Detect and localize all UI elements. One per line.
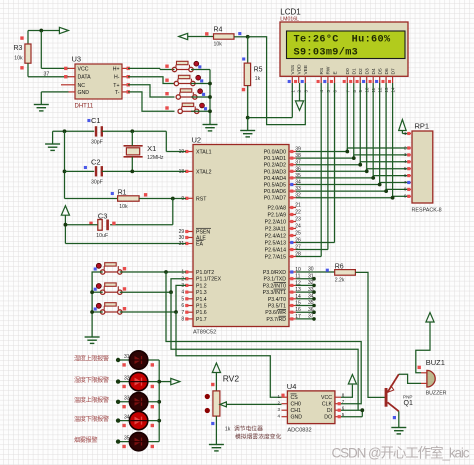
- U3 pin stub GND: [69, 91, 76, 93]
- svg-text:H-: H-: [114, 75, 120, 81]
- capacitor C1: [95, 126, 97, 136]
- junction P0.2/D2: [358, 163, 362, 167]
- svg-text:XTAL1: XTAL1: [196, 150, 212, 156]
- wire P0.1 to D1/RP1 pin 3: [296, 157, 354, 159]
- svg-text:32: 32: [308, 280, 314, 286]
- button K4 actuator dot: [200, 103, 205, 108]
- junction LED bus D3: [157, 400, 161, 404]
- svg-text:RV2: RV2: [223, 374, 240, 384]
- button K1: [172, 67, 176, 71]
- wire U3 T+ to button K3: [128, 85, 175, 97]
- svg-text:10k: 10k: [14, 56, 23, 62]
- junction P0.3/D3: [365, 169, 369, 173]
- button K6 probe marker: [94, 288, 97, 291]
- wire P0.3 to D3/RP1 pin 5: [296, 170, 367, 172]
- svg-text:37: 37: [44, 71, 50, 77]
- node B junction (R4/R5/VEE): [246, 35, 250, 39]
- wire R3 top to node: [28, 30, 41, 32]
- probe marker R6 left: [326, 269, 329, 272]
- transistor Q1 emitter (to buzzer): [388, 374, 399, 392]
- svg-text:模拟烟雾浓度变化: 模拟烟雾浓度变化: [235, 432, 282, 440]
- wire K7 to P1.2: [120, 285, 186, 312]
- wire R6 to Q1 base: [355, 272, 385, 397]
- svg-text:P2.5/A13: P2.5/A13: [265, 241, 286, 247]
- U4 right pin stubs and numbers: [335, 396, 341, 398]
- svg-text:P0.7/AD7: P0.7/AD7: [264, 196, 286, 202]
- svg-text:1k: 1k: [255, 76, 261, 82]
- probe marker C2: [84, 166, 87, 169]
- pin marker C3 right: [112, 222, 115, 225]
- pin markers U4 CLK DI DO: [338, 402, 341, 405]
- junction LED bus D2: [157, 380, 161, 384]
- button K5 actuator dot: [96, 263, 101, 268]
- svg-text:10k: 10k: [119, 204, 128, 210]
- button K7: [101, 310, 105, 314]
- wire P0.5 to D5/RP1 pin 7: [296, 184, 380, 186]
- junction P0.1/D1: [352, 156, 356, 160]
- junction K3 bus: [208, 95, 212, 99]
- svg-text:湿度下限报警: 湿度下限报警: [74, 376, 109, 384]
- wire U4 VCC to arrow: [341, 385, 352, 398]
- button K1 pin marker: [165, 65, 168, 68]
- svg-text:21: 21: [295, 203, 301, 209]
- wire R4 to node B: [234, 36, 248, 38]
- wire DI/DO tie: [341, 409, 362, 411]
- wire K4 to bus: [191, 110, 210, 112]
- svg-text:D5: D5: [378, 68, 384, 74]
- buzzer BUZ1 symbol: [427, 370, 435, 387]
- svg-text:E: E: [332, 71, 338, 74]
- svg-text:32: 32: [124, 375, 130, 381]
- svg-text:P0.6/AD6: P0.6/AD6: [264, 189, 286, 195]
- svg-text:CS: CS: [291, 395, 299, 401]
- wire VCC to EA pin 31: [65, 243, 186, 245]
- svg-text:CH0: CH0: [291, 402, 301, 408]
- wire node C to ground: [247, 118, 249, 131]
- ground (bottom buttons): [85, 336, 100, 338]
- ground (Q1): [391, 427, 406, 429]
- svg-text:34: 34: [308, 294, 314, 300]
- svg-text:C3: C3: [98, 211, 108, 220]
- button K7 pin marker: [123, 307, 126, 310]
- svg-text:温度上限报警: 温度上限报警: [74, 396, 109, 404]
- button K5 probe marker: [94, 267, 97, 270]
- svg-text:D0: D0: [345, 68, 351, 74]
- wire P3.6 net 36: [296, 311, 314, 313]
- button K1 probe marker: [198, 65, 201, 68]
- svg-text:10k: 10k: [214, 41, 223, 47]
- svg-text:D6: D6: [384, 68, 390, 74]
- junction C3/VCC: [64, 223, 68, 227]
- pin marker R3 bottom: [20, 66, 23, 69]
- junction P0.7/D7: [391, 196, 395, 200]
- button K4 probe marker: [204, 107, 207, 110]
- svg-text:4: 4: [181, 290, 184, 296]
- power terminal (VCC) arrow right, R3 node: [41, 30, 59, 32]
- LED D2 pin markers: [122, 385, 125, 388]
- button K6 pin marker: [123, 287, 126, 290]
- svg-text:37: 37: [308, 314, 314, 320]
- junction K7 riser: [174, 310, 178, 314]
- svg-text:RESPACK-8: RESPACK-8: [412, 208, 442, 214]
- wire P0.7 to D7/RP1 pin 9: [296, 197, 393, 199]
- LED D2: [129, 372, 147, 390]
- wire bus corner to R1: [65, 198, 118, 200]
- button K3: [176, 95, 180, 99]
- wire LCD RW to P2.6: [327, 83, 329, 250]
- svg-text:ADC0832: ADC0832: [287, 428, 311, 434]
- U2 right pin stubs and numbers: [289, 151, 296, 153]
- ground (C1/C2): [45, 143, 60, 145]
- wire P3.3 net 33: [296, 291, 314, 293]
- LED D1 wire: [118, 359, 159, 361]
- U3 pin stubs right H+ H- T+ T-: [122, 67, 128, 69]
- junction P0.6/D6: [384, 189, 388, 193]
- svg-text:P3.3/INT1: P3.3/INT1: [263, 290, 286, 296]
- svg-text:P2.1/A9: P2.1/A9: [268, 213, 287, 219]
- svg-text:烟雾报警: 烟雾报警: [74, 436, 98, 444]
- power terminal arrow up (BUZ1): [426, 313, 434, 323]
- svg-text:P1.0/T2: P1.0/T2: [196, 270, 214, 276]
- junction X1 bottom: [130, 170, 134, 174]
- svg-text:T+: T+: [113, 83, 119, 89]
- svg-text:P1.3: P1.3: [196, 290, 207, 296]
- power terminal arrow up (U4 VCC): [348, 375, 356, 385]
- svg-text:D4: D4: [371, 68, 377, 74]
- wire P1.0 wrap to ADC CLK: [166, 272, 361, 404]
- svg-text:P2.7/A15: P2.7/A15: [265, 255, 286, 261]
- svg-text:34: 34: [124, 414, 130, 420]
- svg-text:VEE: VEE: [303, 65, 309, 75]
- resistor R1: [118, 196, 140, 201]
- resistor pack RP1 body: [412, 131, 433, 203]
- svg-text:1k: 1k: [225, 426, 231, 432]
- resistor R5: [244, 63, 250, 86]
- svg-text:P3.2/INT0: P3.2/INT0: [263, 283, 286, 289]
- junction LED bus D4: [157, 419, 161, 423]
- svg-text:RST: RST: [196, 196, 207, 202]
- svg-text:D2: D2: [358, 68, 364, 74]
- button K7 probe marker: [94, 307, 97, 310]
- svg-text:PNP: PNP: [403, 394, 412, 399]
- svg-text:DO: DO: [324, 415, 332, 421]
- pin marker R3 top: [20, 36, 23, 39]
- pin marker C3 left: [89, 222, 92, 225]
- svg-text:P3.5/T1: P3.5/T1: [268, 304, 286, 310]
- svg-text:6: 6: [181, 303, 184, 309]
- button K3 actuator dot: [198, 89, 203, 94]
- svg-text:CH1: CH1: [291, 408, 301, 414]
- svg-text:XTAL2: XTAL2: [196, 169, 212, 175]
- svg-text:X1: X1: [147, 144, 156, 153]
- wire K6 to P1.1: [120, 279, 186, 293]
- LED D5: [129, 432, 147, 450]
- LCD pin stubs: [291, 76, 293, 83]
- wire P3.0 to R6: [296, 271, 335, 273]
- LED D5 wire: [118, 441, 159, 443]
- wire K2 to bus: [191, 83, 210, 85]
- svg-text:25: 25: [295, 231, 301, 237]
- adc U4 ADC0832 body: [287, 391, 335, 424]
- svg-text:U4: U4: [287, 382, 297, 391]
- wire C1 bus: [53, 130, 95, 132]
- svg-text:GND: GND: [78, 90, 90, 96]
- wire C2 row: [65, 170, 95, 172]
- LED D4: [129, 411, 147, 429]
- LED D4 pin markers: [122, 424, 125, 427]
- power terminal arrow up (RV2): [212, 363, 220, 373]
- svg-text:35: 35: [124, 435, 130, 441]
- U2 left pin stubs and numbers: [186, 151, 193, 153]
- pin marker R4 left: [205, 32, 208, 35]
- junction P0.0/D0: [345, 150, 349, 154]
- crystal X1: [124, 145, 143, 147]
- wire U3 H+ to button K1: [128, 67, 160, 69]
- RP1 pin 1 stub and wire to VCC arrow: [408, 133, 412, 135]
- svg-text:NC: NC: [78, 83, 86, 89]
- button K2 pin marker: [165, 79, 168, 82]
- wire K1 to bus: [191, 69, 210, 71]
- svg-text:U3: U3: [72, 55, 82, 64]
- LED D2 wire: [118, 381, 159, 383]
- svg-text:31: 31: [308, 273, 314, 279]
- wire Q1 collector to ground: [398, 411, 400, 427]
- transistor Q1 collector: [388, 402, 399, 411]
- svg-text:P2.3/A11: P2.3/A11: [265, 227, 286, 233]
- probe marker Q1: [393, 416, 396, 419]
- wire BUZ1 to VCC arrow: [416, 322, 430, 373]
- wire P0.0 to D0/RP1 pin 2: [296, 151, 347, 153]
- button K1 actuator dot: [194, 61, 199, 66]
- svg-text:P1.6: P1.6: [196, 310, 207, 316]
- wire U3 T- to button K4: [128, 92, 175, 111]
- wire LCD E to P2.5: [334, 83, 336, 243]
- pin marker U4 CS: [281, 394, 284, 397]
- wire LED bus to power arrow: [159, 381, 171, 383]
- svg-text:10uF: 10uF: [96, 233, 108, 239]
- junction K6 riser: [169, 290, 173, 294]
- ground (RV2): [209, 444, 224, 446]
- LED D3 pin markers: [122, 405, 125, 408]
- svg-text:RS: RS: [319, 68, 325, 75]
- junction ground bus K7: [92, 311, 103, 313]
- wire RV2 wiper to ADC CH0: [226, 403, 281, 405]
- svg-text:36: 36: [308, 307, 314, 313]
- RV2 wiper arrow: [220, 402, 227, 407]
- button K2: [174, 81, 178, 85]
- junction K2 bus: [208, 82, 212, 86]
- button K5 pin marker: [123, 267, 126, 270]
- svg-text:R4: R4: [214, 27, 223, 34]
- svg-text:P0.0/AD0: P0.0/AD0: [264, 150, 286, 156]
- svg-text:P1.5: P1.5: [196, 304, 207, 310]
- junction DI: [360, 408, 364, 412]
- sensor U3 DHT11 body: [75, 64, 122, 99]
- button K3 pin marker: [165, 92, 168, 95]
- wire C3 left to VCC arrow: [65, 224, 97, 226]
- svg-text:P0.5/AD5: P0.5/AD5: [264, 183, 286, 189]
- button K7 actuator dot: [96, 303, 101, 308]
- svg-text:R6: R6: [335, 263, 344, 270]
- RP1 pins 2-9 stubs: [408, 147, 412, 149]
- svg-text:33: 33: [308, 287, 314, 293]
- svg-text:Te:26°C Hu:60%: Te:26°C Hu:60%: [294, 34, 391, 46]
- svg-text:35: 35: [308, 300, 314, 306]
- wire RV2 to ground: [215, 416, 217, 444]
- wire P3.5 net 35: [296, 305, 314, 307]
- LCD screen: [287, 31, 406, 59]
- svg-text:LM016L: LM016L: [280, 17, 299, 23]
- svg-text:VCC: VCC: [321, 395, 332, 401]
- svg-text:CSDN @开心工作室_kaic: CSDN @开心工作室_kaic: [332, 445, 470, 461]
- svg-text:Q1: Q1: [404, 400, 413, 407]
- svg-text:P1.1/T2EX: P1.1/T2EX: [196, 277, 222, 283]
- transistor Q1 base bar: [385, 388, 388, 407]
- svg-text:P2.2/A10: P2.2/A10: [265, 220, 286, 226]
- svg-text:D3: D3: [365, 68, 371, 74]
- probe marker C1: [87, 119, 90, 122]
- svg-text:31: 31: [124, 354, 130, 360]
- LED D4 wire: [118, 420, 159, 422]
- button K6: [101, 290, 105, 294]
- button K2 actuator dot: [196, 75, 201, 80]
- pin marker R1 right: [144, 193, 147, 196]
- svg-text:P1.4: P1.4: [196, 297, 207, 303]
- wire C1 to X1 top / XTAL1: [102, 130, 167, 132]
- svg-text:R3: R3: [14, 45, 23, 52]
- power terminal arrow down (LCD VDD): [299, 83, 301, 101]
- wire P1.2 wrap to ADC CS: [176, 312, 282, 397]
- pin marker RV2 top: [211, 383, 214, 386]
- RV2 terminal dots: [205, 394, 210, 399]
- node A junction: [39, 29, 43, 33]
- wire U3 H- to button K2: [128, 77, 175, 84]
- power terminal arrow left (R4): [179, 33, 188, 39]
- svg-text:VDD: VDD: [297, 64, 303, 75]
- wire P3.4 net 34: [296, 298, 314, 300]
- svg-text:P2.0/A8: P2.0/A8: [268, 206, 287, 212]
- svg-text:12MHz: 12MHz: [147, 155, 164, 161]
- node C junction (R5/VSS/ground): [246, 116, 250, 120]
- svg-text:D7: D7: [390, 68, 396, 74]
- svg-text:P3.1/TXD: P3.1/TXD: [264, 277, 287, 283]
- ground (U3): [34, 104, 49, 106]
- junction P0.4/D4: [371, 176, 375, 180]
- svg-text:R1: R1: [118, 189, 127, 196]
- wire P3.2 net 32: [296, 284, 314, 286]
- wire node A down to U3 VCC: [40, 31, 42, 69]
- svg-text:BUZ1: BUZ1: [426, 358, 445, 367]
- junction ground bus K6: [92, 291, 103, 293]
- svg-text:P0.2/AD2: P0.2/AD2: [264, 163, 286, 169]
- LED D1 pin markers: [122, 363, 125, 366]
- svg-text:P0.1/AD1: P0.1/AD1: [264, 156, 286, 162]
- svg-text:VSS: VSS: [290, 65, 296, 75]
- LED D3 wire: [118, 401, 159, 403]
- svg-text:P1.2: P1.2: [196, 283, 207, 289]
- svg-text:P3.6/WR: P3.6/WR: [265, 310, 286, 316]
- svg-text:S9:03m9/m3: S9:03m9/m3: [294, 47, 359, 59]
- wire node B down to R5: [247, 37, 249, 63]
- wire RST node down to C3: [172, 199, 174, 225]
- svg-text:P2.6/A14: P2.6/A14: [265, 248, 286, 254]
- svg-text:P0.3/AD3: P0.3/AD3: [264, 169, 286, 175]
- svg-text:温度下限报警: 温度下限报警: [74, 415, 109, 423]
- svg-text:5: 5: [181, 296, 184, 302]
- power terminal arrow up (C3/EA): [61, 206, 69, 216]
- svg-text:8: 8: [181, 317, 184, 323]
- button K3 probe marker: [202, 93, 205, 96]
- svg-text:BUZZER: BUZZER: [426, 390, 447, 396]
- svg-text:C2: C2: [91, 158, 101, 167]
- svg-text:P2.4/A12: P2.4/A12: [265, 234, 286, 240]
- svg-text:C1: C1: [91, 116, 101, 125]
- resistor R3: [25, 44, 31, 63]
- probe marker R5 top: [242, 57, 245, 60]
- svg-text:VCC: VCC: [78, 66, 89, 72]
- button K2 probe marker: [200, 79, 203, 82]
- U3 pin NC no-connect stub: [61, 84, 75, 86]
- wire LCD RS to P2.7: [320, 83, 322, 257]
- svg-text:P3.0/RXD: P3.0/RXD: [263, 270, 286, 276]
- button K4: [178, 109, 182, 113]
- svg-text:DATA: DATA: [78, 75, 92, 81]
- svg-text:2.2k: 2.2k: [335, 278, 345, 284]
- svg-text:H+: H+: [113, 66, 120, 72]
- svg-text:30pF: 30pF: [91, 140, 103, 146]
- svg-text:P0.4/AD4: P0.4/AD4: [264, 176, 286, 182]
- ground (R5): [240, 130, 255, 132]
- button K4 pin marker: [165, 106, 168, 109]
- LED D1: [129, 351, 147, 369]
- U4 left pin stubs and numbers: [282, 396, 288, 398]
- svg-text:30pF: 30pF: [91, 180, 103, 186]
- svg-text:调节电位器: 调节电位器: [234, 424, 263, 432]
- node D junction (RST): [171, 197, 175, 201]
- pin marker R5 bottom: [242, 88, 245, 91]
- LED anode bus: [158, 360, 160, 442]
- wire R3 bottom to U3 DATA: [27, 63, 29, 76]
- wire XTAL1 riser: [165, 131, 167, 151]
- LED D5 pin markers: [122, 445, 125, 448]
- probe marker R4 right: [238, 32, 241, 35]
- resistor R4: [214, 34, 235, 39]
- svg-text:GND: GND: [291, 415, 303, 421]
- svg-text:DI: DI: [327, 408, 332, 414]
- button K5: [101, 270, 105, 274]
- svg-text:T-: T-: [115, 90, 120, 96]
- wire U3 GND to ground: [41, 91, 68, 93]
- pin marker BUZ1: [418, 366, 421, 369]
- wire P0.4 to D4/RP1 pin 6: [296, 177, 373, 179]
- svg-text:DHT11: DHT11: [75, 104, 94, 110]
- svg-text:P1.7: P1.7: [196, 317, 207, 323]
- wire C2 bus: [64, 131, 66, 198]
- junction C1 bus: [63, 129, 67, 133]
- svg-text:7: 7: [181, 310, 184, 316]
- probe marker RV2 bottom: [211, 422, 214, 425]
- svg-text:LCD1: LCD1: [280, 8, 301, 17]
- svg-text:EA: EA: [196, 242, 203, 248]
- wire R1 to RST: [139, 198, 186, 200]
- display LCD1 LM016L body: [280, 22, 408, 76]
- wire K3 to bus: [191, 96, 210, 98]
- wire node B to LCD VEE: [248, 37, 306, 125]
- button K6 actuator dot: [96, 284, 101, 289]
- wire P1.1 wrap to ADC DI/DO: [171, 292, 358, 410]
- wire node C to LCD VSS: [248, 117, 293, 119]
- svg-text:22: 22: [295, 210, 301, 216]
